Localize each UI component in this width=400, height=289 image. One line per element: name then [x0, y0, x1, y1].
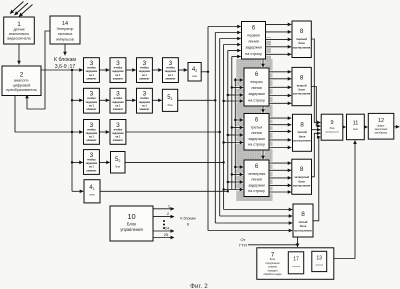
svg-text:аналого-: аналого-	[14, 79, 30, 83]
svg-text:управления: управления	[120, 227, 142, 232]
svg-text:От: От	[241, 237, 246, 242]
svg-text:на 1: на 1	[168, 74, 174, 77]
svg-text:элемент: элемент	[86, 139, 97, 142]
svg-text:на 1: на 1	[89, 136, 95, 139]
svg-text:вычисления: вычисления	[293, 139, 311, 143]
svg-text:линия: линия	[251, 131, 262, 135]
svg-text:элемент: элемент	[113, 77, 124, 80]
svg-text:ячейка: ячейка	[140, 67, 149, 70]
svg-text:К блокам: К блокам	[54, 57, 76, 63]
svg-text:тактовых: тактовых	[58, 32, 73, 36]
svg-text:элемент: элемент	[86, 108, 97, 111]
svg-text:на 1: на 1	[142, 74, 148, 77]
svg-text:8: 8	[300, 121, 304, 128]
svg-text:на 1: на 1	[89, 74, 95, 77]
svg-text:суммирования: суммирования	[325, 132, 339, 134]
svg-text:аналоговый: аналоговый	[375, 128, 388, 131]
svg-text:25: 25	[164, 232, 169, 237]
svg-text:Фиг. 2: Фиг. 2	[190, 283, 208, 289]
svg-text:задержки: задержки	[248, 183, 265, 187]
svg-text:элемент: элемент	[139, 77, 150, 80]
svg-text:передачи: передачи	[267, 270, 278, 272]
svg-text:первая: первая	[247, 33, 259, 37]
svg-text:преобразователь: преобразователь	[6, 88, 36, 92]
svg-text:задержки: задержки	[245, 46, 262, 50]
svg-text:13: 13	[316, 256, 322, 262]
svg-text:элемент: элемент	[113, 139, 124, 142]
svg-text:ячейка: ячейка	[166, 67, 175, 70]
svg-text:на строку: на строку	[245, 52, 262, 56]
svg-text:на 1: на 1	[115, 74, 121, 77]
svg-text:ключ: ключ	[89, 195, 95, 197]
svg-text:ячейка: ячейка	[140, 97, 149, 100]
svg-text:ключ: ключ	[192, 76, 198, 78]
svg-text:8: 8	[301, 211, 305, 218]
svg-text:преобразов.: преобразов.	[374, 133, 387, 135]
svg-text:элемент: элемент	[86, 77, 97, 80]
svg-text:задержки: задержки	[86, 70, 98, 73]
svg-text:задержки: задержки	[86, 162, 98, 165]
svg-text:линия: линия	[251, 178, 262, 182]
svg-text:8: 8	[300, 28, 304, 35]
svg-text:задержки: задержки	[248, 92, 265, 96]
svg-text:задержки: задержки	[139, 70, 151, 73]
svg-text:определения: определения	[266, 263, 281, 265]
svg-text:на 1: на 1	[115, 104, 121, 107]
svg-text:ячейка: ячейка	[87, 97, 96, 100]
svg-text:импульсов: импульсов	[56, 37, 74, 41]
svg-text:на 1: на 1	[115, 136, 121, 139]
svg-text:вторая: вторая	[250, 80, 262, 84]
svg-text:видеосигнала: видеосигнала	[7, 37, 30, 41]
svg-text:ячейка: ячейка	[114, 97, 123, 100]
svg-text:9: 9	[330, 120, 333, 126]
svg-text:датчик: датчик	[13, 28, 25, 32]
svg-text:11: 11	[353, 121, 359, 127]
svg-text:четвертая: четвертая	[248, 172, 266, 176]
svg-text:задержки: задержки	[248, 137, 265, 141]
svg-text:линия: линия	[251, 86, 262, 90]
svg-text:задержки: задержки	[165, 70, 177, 73]
svg-text:3,6-9 ;17: 3,6-9 ;17	[55, 64, 76, 70]
svg-text:на строку: на строку	[248, 189, 265, 193]
svg-text:задержки: задержки	[112, 70, 124, 73]
svg-text:17: 17	[293, 257, 299, 263]
svg-text:ячейка: ячейка	[87, 128, 96, 131]
svg-text:на строку: на строку	[248, 143, 265, 147]
svg-text:задержки: задержки	[112, 132, 124, 135]
svg-text:вычисления: вычисления	[294, 228, 312, 232]
svg-text:аналогового: аналогового	[9, 32, 29, 36]
svg-text:2: 2	[20, 72, 24, 79]
svg-text:третья: третья	[251, 125, 263, 129]
svg-text:на 1: на 1	[142, 104, 148, 107]
svg-text:обработки кадра: обработки кадра	[264, 274, 283, 276]
svg-text:задержки: задержки	[86, 101, 98, 104]
svg-text:на 1: на 1	[89, 166, 95, 169]
svg-text:10: 10	[127, 212, 135, 221]
svg-text:К блокам: К блокам	[180, 217, 196, 221]
svg-text:ячейка: ячейка	[87, 67, 96, 70]
svg-text:счетчик: счетчик	[292, 266, 300, 268]
svg-text:Генератор: Генератор	[57, 27, 74, 31]
svg-text:элемент: элемент	[165, 77, 176, 80]
svg-text:линия: линия	[248, 40, 259, 44]
svg-text:ячейка: ячейка	[114, 128, 123, 131]
svg-text:8: 8	[300, 74, 304, 81]
svg-text:на 1: на 1	[89, 104, 95, 107]
svg-text:задержки: задержки	[112, 101, 124, 104]
svg-text:8: 8	[187, 223, 189, 227]
svg-text:ключ: ключ	[353, 129, 359, 131]
svg-text:на строку: на строку	[248, 98, 265, 102]
svg-text:режима: режима	[268, 267, 277, 269]
svg-text:задержки: задержки	[86, 132, 98, 135]
svg-text:вычисления: вычисления	[293, 92, 311, 96]
svg-text:цифро-: цифро-	[377, 125, 385, 128]
svg-text:элемент: элемент	[139, 108, 150, 111]
svg-text:цифровой: цифровой	[13, 83, 31, 87]
svg-text:вычисления: вычисления	[293, 184, 311, 188]
svg-text:элемент: элемент	[86, 169, 97, 172]
svg-text:Блок: Блок	[127, 222, 136, 227]
svg-text:ячейка: ячейка	[87, 159, 96, 162]
svg-text:ячейка: ячейка	[114, 67, 123, 70]
svg-text:задержки: задержки	[139, 101, 151, 104]
svg-text:ГТИ: ГТИ	[239, 242, 247, 247]
svg-text:24: 24	[165, 226, 170, 231]
svg-text:элемент: элемент	[113, 108, 124, 111]
svg-text:триггер: триггер	[315, 265, 323, 267]
svg-text:вычисления: вычисления	[293, 45, 311, 49]
svg-text:12: 12	[378, 118, 384, 124]
svg-text:8: 8	[300, 166, 304, 173]
